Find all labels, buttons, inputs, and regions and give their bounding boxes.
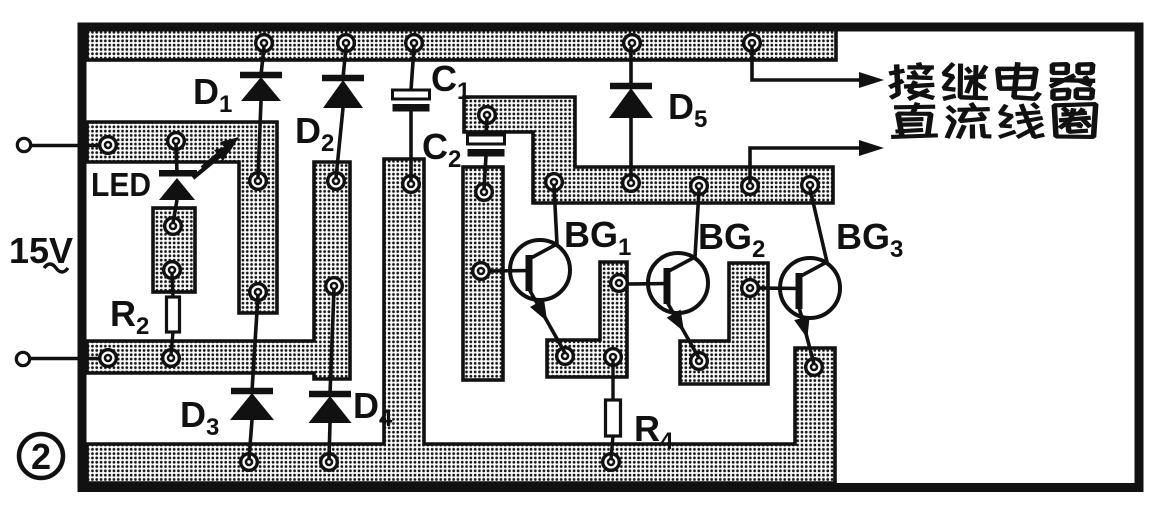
LED indicator diode bbox=[159, 137, 239, 223]
wire: ground bus - center trunk, bottom rail and BG3 emitter column bbox=[87, 159, 835, 483]
svg-text:LED: LED bbox=[91, 166, 151, 203]
label: connect to relay DC coil (Chinese) line 2 bbox=[891, 102, 1098, 139]
pad R2 top bbox=[164, 262, 181, 279]
pad D2 anode bbox=[328, 173, 345, 190]
pad C2 plus bbox=[479, 107, 496, 124]
svg-text:2: 2 bbox=[31, 436, 51, 477]
capacitor C2 bbox=[468, 119, 505, 189]
transistor BG2 bbox=[627, 190, 708, 358]
figure number 2 bbox=[19, 434, 63, 478]
diode D1 bbox=[240, 47, 282, 178]
pad LED cathode bbox=[165, 218, 182, 235]
svg-text:15V: 15V bbox=[9, 230, 73, 271]
pad R4 bottom bbox=[603, 454, 620, 471]
pad C2 minus bbox=[476, 184, 493, 201]
terminal: AC input upper bbox=[17, 138, 100, 151]
pad top rail / C1 plus bbox=[406, 35, 423, 52]
pad D1 anode bbox=[250, 173, 267, 190]
capacitor C1 bbox=[393, 47, 430, 181]
pad BG2 emitter bbox=[691, 353, 708, 370]
pad C1 minus bbox=[403, 176, 420, 193]
pad D3 anode bbox=[241, 454, 258, 471]
pad AC input lower bbox=[100, 350, 117, 367]
pad BG1 collector bbox=[546, 174, 563, 191]
pad BG3 collector bbox=[802, 177, 819, 194]
pad LED anode feed bbox=[168, 133, 185, 150]
pad BG1 base bbox=[473, 263, 490, 280]
pad top rail / relay output bbox=[744, 35, 761, 52]
pad top rail / D2 cathode bbox=[338, 35, 355, 52]
pad top rail / D1 cathode bbox=[256, 35, 273, 52]
resistor R2 bbox=[167, 273, 180, 355]
resistor R4 bbox=[606, 360, 621, 459]
transistor BG3 bbox=[758, 189, 840, 364]
wire: top supply rail copper trace bbox=[87, 28, 836, 60]
pad R2 bottom bbox=[163, 350, 180, 367]
pad BG1 emitter bbox=[557, 348, 574, 365]
label: connect to relay DC coil (Chinese) line 1 bbox=[888, 62, 1095, 101]
pad BG2 base bbox=[611, 275, 628, 292]
pad top rail / D5 cathode bbox=[624, 35, 641, 52]
wire: C2 bottom / BG1 base column bbox=[463, 167, 503, 380]
pad R4 top bbox=[605, 349, 622, 366]
pad D5 anode bbox=[623, 175, 640, 192]
wire: C2 top / Z-shaped trace into mid rail bbox=[464, 97, 833, 203]
pad AC input upper bbox=[100, 137, 117, 154]
wire: BG2 emitter / BG3 base L-trace bbox=[680, 263, 768, 384]
diode D3 bbox=[230, 295, 274, 459]
diode D2 bbox=[322, 47, 364, 178]
pad BG2 collector bbox=[691, 178, 708, 195]
pad BG3 base bbox=[742, 280, 759, 297]
wire: BG1 emitter / BG2 base L-trace bbox=[547, 262, 627, 377]
wire: lower AC input trace with D2/D4 column bbox=[87, 162, 350, 379]
diode D5 bbox=[609, 47, 653, 180]
wire: left AC input trace with D1 column bbox=[87, 122, 277, 313]
pad BG3 emitter bbox=[806, 359, 823, 376]
pad D4 cathode bbox=[326, 278, 343, 295]
pad relay output 2 bbox=[742, 178, 759, 195]
terminal: AC input lower bbox=[16, 352, 99, 365]
wire: relay output arrow 1 bbox=[752, 47, 866, 80]
pad D4 anode bbox=[321, 454, 338, 471]
transistor BG1 bbox=[489, 186, 570, 353]
diode D4 bbox=[309, 289, 352, 459]
wire: relay output arrow 2 bbox=[750, 148, 866, 182]
pad D3 cathode bbox=[250, 284, 267, 301]
wire: LED cathode pad column bbox=[153, 208, 195, 292]
